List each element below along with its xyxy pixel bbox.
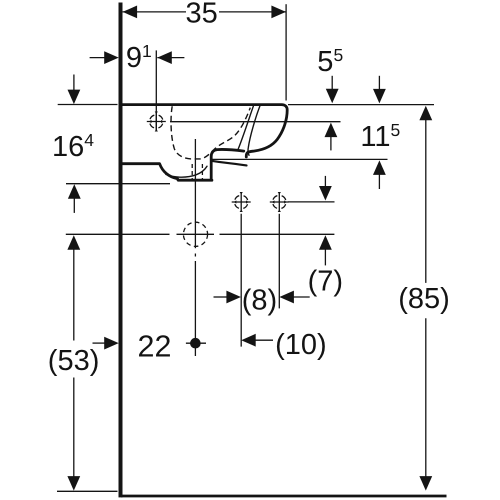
svg-text:(85): (85) — [398, 283, 450, 315]
svg-text:(53): (53) — [48, 345, 100, 377]
svg-text:35: 35 — [186, 0, 218, 29]
svg-text:22: 22 — [138, 330, 172, 364]
svg-text:(8): (8) — [242, 284, 277, 316]
svg-text:(7): (7) — [308, 265, 343, 297]
svg-text:(10): (10) — [275, 329, 327, 361]
